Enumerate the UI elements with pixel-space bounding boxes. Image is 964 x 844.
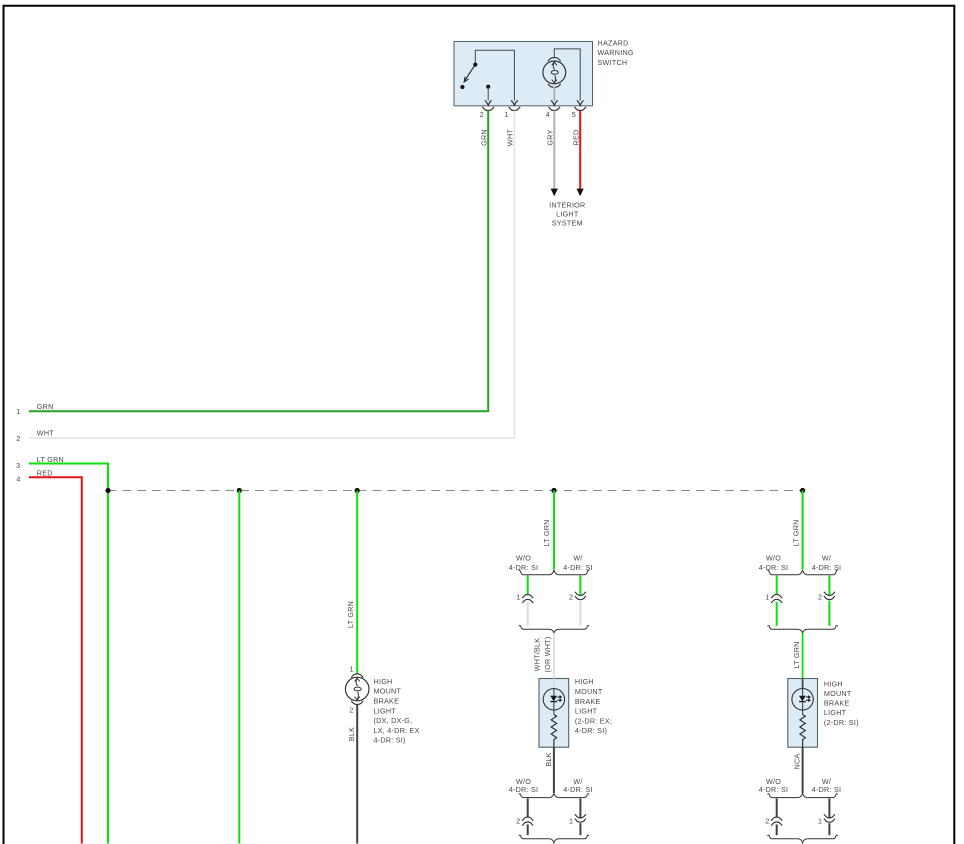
svg-text:MOUNT: MOUNT (374, 687, 402, 696)
svg-text:1: 1 (569, 816, 573, 825)
svg-text:LT GRN: LT GRN (346, 601, 355, 628)
svg-text:1: 1 (504, 110, 508, 119)
svg-text:4-DR: SI): 4-DR: SI) (374, 736, 406, 745)
svg-text:4-DR: SI): 4-DR: SI) (575, 726, 607, 735)
svg-text:2: 2 (16, 434, 20, 443)
svg-text:W/: W/ (822, 554, 831, 563)
svg-text:WHT: WHT (506, 129, 515, 146)
svg-text:(2-DR: SI): (2-DR: SI) (824, 718, 859, 727)
svg-text:2: 2 (350, 706, 354, 715)
svg-text:4: 4 (16, 475, 20, 484)
svg-text:INTERIOR: INTERIOR (549, 201, 585, 210)
svg-text:BRAKE: BRAKE (575, 697, 601, 706)
svg-text:LIGHT: LIGHT (556, 210, 579, 219)
svg-text:GRN: GRN (37, 402, 54, 411)
svg-text:2: 2 (818, 593, 822, 602)
svg-text:LT GRN: LT GRN (542, 519, 551, 546)
svg-text:GRY: GRY (546, 129, 555, 145)
svg-text:5: 5 (572, 110, 576, 119)
svg-text:BLK: BLK (544, 752, 553, 766)
svg-text:(OR WHT): (OR WHT) (543, 637, 552, 673)
svg-text:MOUNT: MOUNT (824, 689, 852, 698)
svg-text:WHT/BLK: WHT/BLK (533, 638, 542, 672)
svg-text:BRAKE: BRAKE (374, 697, 400, 706)
svg-text:HAZARD: HAZARD (598, 38, 629, 47)
svg-text:4-DR: SI: 4-DR: SI (759, 785, 789, 794)
svg-text:(2-DR: EX;: (2-DR: EX; (575, 716, 612, 725)
svg-text:1: 1 (350, 664, 354, 673)
svg-text:SWITCH: SWITCH (598, 58, 628, 67)
svg-text:2: 2 (516, 816, 520, 825)
svg-text:W/O: W/O (766, 554, 781, 563)
svg-text:4: 4 (546, 110, 550, 119)
svg-text:2: 2 (765, 816, 769, 825)
svg-text:1: 1 (516, 593, 520, 602)
svg-text:LIGHT: LIGHT (824, 708, 847, 717)
svg-text:4-DR: SI: 4-DR: SI (812, 785, 842, 794)
svg-text:4-DR: SI: 4-DR: SI (509, 785, 539, 794)
svg-text:HIGH: HIGH (575, 677, 594, 686)
svg-text:1: 1 (765, 593, 769, 602)
svg-text:1: 1 (16, 407, 20, 416)
svg-text:LX, 4-DR: EX: LX, 4-DR: EX (374, 726, 420, 735)
svg-text:SYSTEM: SYSTEM (552, 218, 583, 227)
svg-text:1: 1 (818, 816, 822, 825)
svg-text:4-DR: SI: 4-DR: SI (509, 563, 539, 572)
svg-text:4-DR: SI: 4-DR: SI (759, 563, 789, 572)
svg-text:MOUNT: MOUNT (575, 687, 603, 696)
svg-text:LT GRN: LT GRN (791, 519, 800, 546)
svg-text:BLK: BLK (347, 727, 356, 741)
svg-text:NCA: NCA (793, 754, 802, 770)
svg-text:2: 2 (480, 110, 484, 119)
svg-text:WHT: WHT (37, 429, 54, 438)
svg-text:BRAKE: BRAKE (824, 699, 850, 708)
svg-text:RED: RED (37, 468, 53, 477)
svg-text:W/O: W/O (516, 554, 531, 563)
svg-text:LT GRN: LT GRN (792, 641, 801, 668)
svg-text:W/: W/ (573, 554, 582, 563)
svg-text:HIGH: HIGH (374, 677, 393, 686)
svg-text:4-DR: SI: 4-DR: SI (563, 785, 593, 794)
svg-text:3: 3 (16, 461, 20, 470)
svg-text:2: 2 (569, 593, 573, 602)
svg-text:WARNING: WARNING (598, 48, 634, 57)
svg-text:LIGHT: LIGHT (374, 706, 397, 715)
svg-text:(DX, DX-G,: (DX, DX-G, (374, 716, 413, 725)
svg-text:RED: RED (571, 130, 580, 146)
svg-text:HIGH: HIGH (824, 679, 843, 688)
svg-text:GRN: GRN (479, 129, 488, 146)
svg-text:LIGHT: LIGHT (575, 707, 598, 716)
